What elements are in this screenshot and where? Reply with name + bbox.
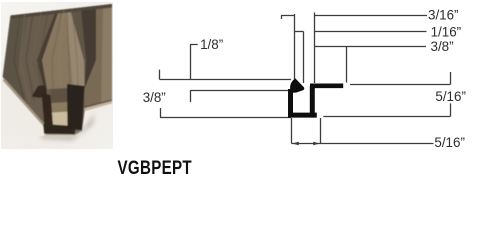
profile hook: [290, 78, 304, 93]
dim line 3/8 right: [315, 46, 427, 48]
photo: lit edge along bottom-left diagonal: [3, 78, 45, 125]
svg-text:5/16”: 5/16”: [435, 89, 466, 104]
photo: band2 mid left face: [18, 10, 56, 106]
svg-text:VGBPEPT: VGBPEPT: [118, 157, 193, 179]
photo: streaks left face: [14, 11, 48, 103]
svg-text:3/8”: 3/8”: [431, 39, 454, 54]
extension F (bottom right): [320, 118, 322, 144]
photo: leg underside dark edge: [83, 100, 112, 109]
dim line 5/16 bottom: [292, 143, 434, 145]
photo: end face channel void floor: [52, 112, 69, 128]
bottom dim arrow right: [313, 142, 320, 146]
dim line 3/16 right: [315, 15, 428, 17]
extension D (leg end): [346, 47, 348, 83]
profile left wall: [288, 89, 293, 115]
photo: band4 light front face: [42, 9, 85, 89]
left line hook level M1: [160, 70, 292, 80]
left line M3 bottom: [160, 108, 291, 118]
left line M2: [190, 91, 288, 103]
photo: far-end cut strip: [11, 4, 113, 19]
photo: end face right wall: [67, 84, 85, 131]
photo: end face hook: [32, 85, 47, 98]
drawing thin lines: [160, 13, 451, 144]
svg-text:5/16”: 5/16”: [434, 135, 465, 150]
stub left of 1/16: [295, 31, 304, 33]
photo: band1 dark left face: [3, 14, 29, 107]
profile bottom: [288, 113, 317, 118]
photo: end face channel void upper: [51, 88, 69, 103]
extension E (bottom left): [291, 118, 293, 144]
photo: background: [1, 2, 113, 149]
profile cross-section (thick): [288, 78, 343, 115]
photo: band5 mid-dark strip: [70, 8, 86, 60]
photo: band4 right lighter part: [66, 9, 85, 89]
photo: leg underside highlight: [84, 101, 112, 111]
extension B (hook right): [303, 32, 305, 84]
photo: bg wedge bottom-left: [1, 77, 44, 136]
bottom dim arrow left: [292, 142, 299, 146]
photo: band6 leg face: [85, 4, 113, 108]
svg-text:1/16”: 1/16”: [431, 25, 462, 40]
stub left of 3/16: [281, 16, 295, 20]
photo: extrusion main silhouette: [3, 4, 113, 135]
photo: end face left wall: [42, 93, 54, 128]
svg-text:3/16”: 3/16”: [428, 7, 459, 22]
photo: band6 right lighter edge: [101, 4, 112, 104]
dim line 5/16 right lower: [323, 103, 450, 116]
svg-text:3/8”: 3/8”: [143, 90, 166, 105]
photo: band5 dark channel: [81, 6, 96, 89]
dim line 1/16 right: [315, 31, 427, 33]
dim line 5/16 right upper: [350, 72, 451, 85]
profile leg: [310, 84, 343, 89]
leader 1/8: [191, 45, 198, 80]
photo: end face channel void middle: [52, 102, 69, 113]
photo: band3 crease: [37, 10, 59, 89]
photo: floor shadow: [34, 113, 95, 141]
photo: end face bottom: [43, 124, 76, 134]
extension A (hook tip): [294, 14, 296, 79]
profile right wall: [310, 86, 315, 115]
extension C (wall outer): [314, 13, 316, 84]
svg-text:1/8”: 1/8”: [200, 37, 223, 52]
photo: streaks front face: [52, 9, 78, 88]
